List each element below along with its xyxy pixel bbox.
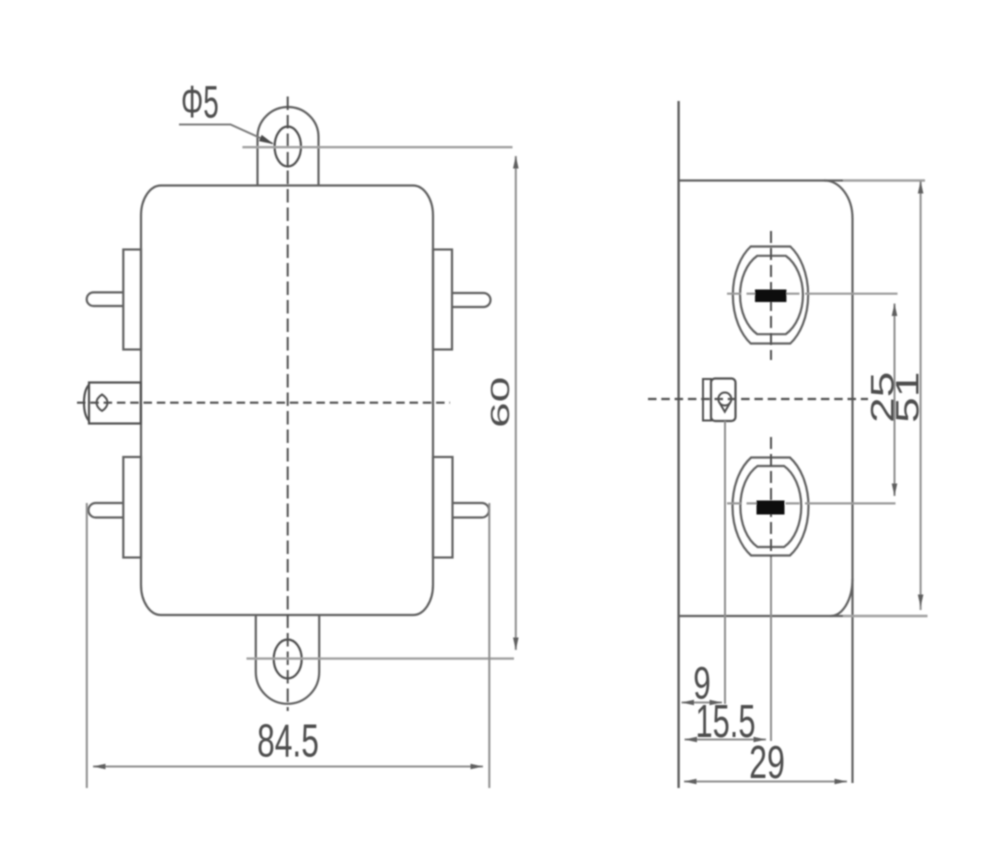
dimension 9 [682,659,723,709]
receptacle upper outer [733,247,808,344]
pin upper-right [452,293,491,307]
label phi5 [181,77,219,127]
terminal block lower-left [123,457,141,558]
dimension 84.5 [87,503,490,788]
centerline horizontal left view [77,402,450,404]
crosshair lower horizontal [727,502,896,504]
centerline horizontal right view [648,398,868,400]
body top edge [679,179,843,181]
body outline [141,186,433,616]
svg-text:60: 60 [485,377,514,428]
extension line top edge [843,179,925,181]
mounting tab top [258,107,319,185]
ground pin keyhole [718,393,731,412]
dimension 29 [684,737,847,788]
pin upper-left [87,292,124,306]
svg-text:15.5: 15.5 [696,697,756,748]
crosshair lower vertical [770,437,772,572]
crosshair upper vertical [770,231,772,360]
ground pin side view body [711,379,736,422]
dimension 60 [485,156,518,650]
svg-text:51: 51 [890,372,926,423]
centerline vertical left view [287,97,289,712]
svg-text:29: 29 [749,737,785,788]
mounting tab bottom [256,615,319,704]
body corner arcs [824,180,853,616]
panel line [677,101,679,788]
pin lower-left [88,503,123,518]
pin lower-right [452,503,489,518]
extension line from ground pin [724,421,726,704]
svg-text:Φ5: Φ5 [181,77,219,127]
slot lower [757,501,785,515]
dimension 15.5 [685,697,767,748]
extension line top (hole center) [242,146,512,148]
mounting hole bottom [274,640,302,679]
extension line from lower receptacle [770,557,772,741]
terminal block lower-right [433,457,453,558]
extension line bottom (hole center) [247,657,515,659]
ground terminal left view [84,383,141,424]
leader line phi5 [179,125,274,145]
ground terminal lens mark [97,395,108,411]
svg-text:84.5: 84.5 [257,716,319,767]
dimension 51 [890,181,926,610]
dimension 25 [865,304,901,497]
terminal block upper-left [123,250,141,350]
body right edge [851,219,853,784]
ground pin side view flange [703,379,711,421]
receptacle upper inner [740,256,803,334]
crosshair upper horizontal [727,293,898,295]
slot upper [755,290,786,303]
extension line bottom edge [843,615,928,617]
receptacle lower inner [740,466,801,547]
body bottom edge [679,615,843,617]
receptacle lower outer [733,458,809,556]
terminal block upper-right [433,250,452,350]
mounting hole top [275,127,301,167]
